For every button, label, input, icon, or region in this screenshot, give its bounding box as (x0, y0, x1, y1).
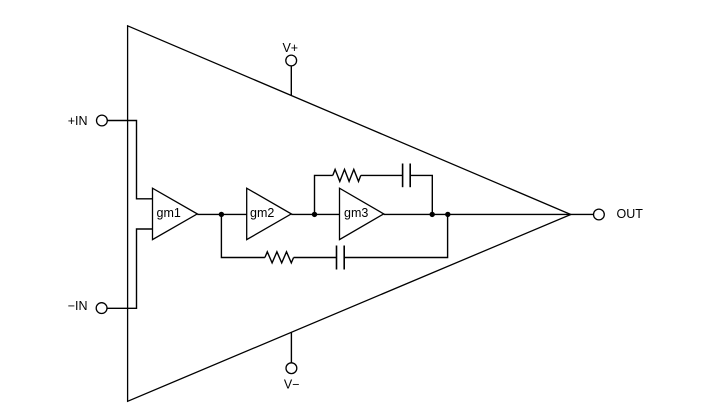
svg-text:V+: V+ (282, 41, 298, 55)
svg-text:gm1: gm1 (157, 206, 181, 220)
wire lower feedback right leg (344, 214, 447, 257)
wire gm1 output to gm2 input (197, 213, 246, 215)
V- terminal (286, 363, 297, 374)
wire gm2 output to gm3 input (291, 213, 339, 215)
wire upper feedback left leg (315, 175, 333, 214)
svg-text:OUT: OUT (617, 207, 644, 221)
V+ terminal (286, 55, 297, 66)
capacitor C1 upper feedback (403, 164, 411, 188)
transconductance amp gm3 (340, 188, 384, 239)
capacitor C2 lower feedback (337, 246, 345, 270)
wire V+ to body (290, 66, 292, 96)
svg-text:V−: V− (284, 378, 300, 392)
node gm1 output junction (219, 212, 224, 217)
transconductance amp gm2 (247, 188, 292, 239)
svg-text:−IN: −IN (68, 299, 88, 313)
+IN terminal (97, 115, 108, 126)
op-amp body U1 (128, 26, 571, 402)
transconductance amp gm1 (153, 188, 198, 239)
wire +IN to gm1 top input (107, 121, 152, 199)
wire R1 to C1 (361, 174, 403, 176)
wire V- to body (290, 332, 292, 362)
wire upper feedback right leg (410, 175, 432, 214)
node gm2 output junction (312, 212, 317, 217)
svg-text:gm2: gm2 (250, 206, 274, 220)
wire lower feedback left leg (221, 214, 265, 257)
wire -IN to gm1 bottom input (107, 229, 153, 308)
node lower feedback junction (445, 212, 450, 217)
svg-text:+IN: +IN (68, 114, 88, 128)
resistor R2 lower feedback (265, 252, 294, 263)
resistor R1 upper feedback (333, 169, 361, 181)
-IN terminal (96, 303, 107, 314)
OUT terminal (594, 209, 605, 220)
svg-text:gm3: gm3 (344, 206, 368, 220)
wire R2 to C2 (294, 257, 337, 259)
node upper feedback junction (430, 212, 435, 217)
wire gm3 output to OUT terminal (384, 213, 594, 215)
